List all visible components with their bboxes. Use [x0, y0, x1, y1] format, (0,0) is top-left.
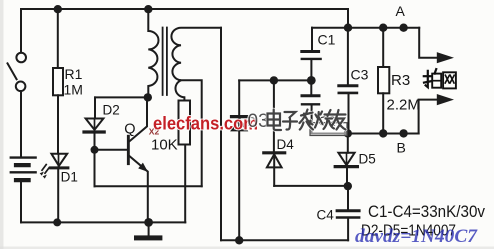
wire secondary top column	[220, 28, 222, 241]
wire base-emitter loop (wire A)	[95, 185, 202, 187]
wire ground rail	[21, 221, 185, 223]
node D3 bottom	[235, 236, 243, 244]
wire B rail	[311, 133, 418, 135]
svg-text:R3: R3	[391, 72, 410, 89]
node D5 bottom junction	[344, 182, 352, 190]
arrow output A	[437, 52, 454, 63]
wire top rail	[21, 8, 348, 10]
node emitter/ground junction	[144, 218, 153, 227]
svg-text:B: B	[397, 140, 406, 156]
node primary top	[144, 5, 152, 13]
svg-text:03: 03	[248, 111, 269, 132]
svg-text:1M: 1M	[64, 82, 83, 98]
diode D5	[335, 134, 357, 187]
wire left rail upper	[20, 9, 22, 53]
svg-text:C1-C4=33nK/30v: C1-C4=33nK/30v	[368, 203, 486, 221]
label 拍网 (drawn as paths)	[424, 69, 456, 88]
wire A rail	[312, 27, 419, 29]
svg-text:C3: C3	[351, 67, 369, 83]
capacitor C4	[337, 186, 359, 240]
transformer core	[163, 28, 167, 96]
node B	[399, 129, 407, 137]
svg-text:D5: D5	[359, 152, 376, 167]
wire collector node to D2	[95, 96, 148, 98]
wire base	[95, 149, 127, 151]
node drop junction	[344, 24, 352, 32]
node D1 bottom	[53, 218, 61, 226]
node C1 bottom	[307, 76, 316, 85]
svg-text:Q: Q	[124, 122, 135, 138]
diode D2	[84, 97, 104, 149]
capacitor C3	[339, 28, 357, 134]
svg-text:R1: R1	[65, 66, 83, 82]
diode D4	[264, 80, 285, 185]
resistor R3	[378, 28, 389, 134]
scan edge left	[0, 0, 4, 249]
svg-text:D4: D4	[277, 137, 295, 152]
transformer primary winding	[148, 9, 158, 97]
node R3 top	[379, 24, 387, 32]
svg-text:C1: C1	[318, 32, 336, 48]
node base junction	[91, 146, 99, 154]
wire D2 junction down	[94, 150, 96, 187]
svg-text:2.2M: 2.2M	[387, 97, 420, 114]
resistor R2 10K	[179, 101, 191, 223]
node D4 top	[270, 76, 278, 84]
transformer secondary winding	[171, 28, 221, 101]
svg-text:elecfans.com: elecfans.com	[153, 114, 258, 134]
ground	[134, 222, 162, 240]
wire output B	[419, 100, 438, 134]
node A	[399, 24, 407, 32]
watermark box	[310, 123, 347, 136]
svg-text:D2: D2	[103, 103, 120, 118]
node D5 top	[344, 129, 352, 137]
capacitor C2	[302, 80, 319, 133]
svg-text:A: A	[396, 3, 406, 19]
wire output A	[419, 28, 437, 58]
wire node80	[239, 79, 311, 81]
wire secondary tap	[181, 80, 202, 186]
wire bottom rail	[221, 239, 348, 241]
svg-text:D1: D1	[61, 170, 78, 185]
capacitor C1	[302, 28, 321, 81]
LED D1	[40, 154, 68, 223]
svg-text:10K: 10K	[151, 137, 178, 154]
wire node186	[274, 185, 348, 187]
svg-text:davdz=1N40C7: davdz=1N40C7	[355, 226, 479, 247]
transistor Q	[127, 97, 148, 222]
scan edge bottom	[0, 247, 494, 249]
wire battery to ground rail	[20, 182, 22, 222]
node primary bottom	[144, 93, 152, 101]
battery GB	[11, 158, 36, 181]
node R3 bottom	[379, 129, 387, 137]
resistor R1	[53, 9, 63, 154]
switch S	[8, 53, 27, 91]
wire switch to battery	[20, 91, 22, 156]
wire top rail drop	[347, 9, 349, 28]
arrow output B	[437, 94, 454, 105]
svg-text:C4: C4	[317, 208, 335, 223]
node R1 top	[54, 5, 62, 13]
diode D3	[232, 80, 248, 240]
